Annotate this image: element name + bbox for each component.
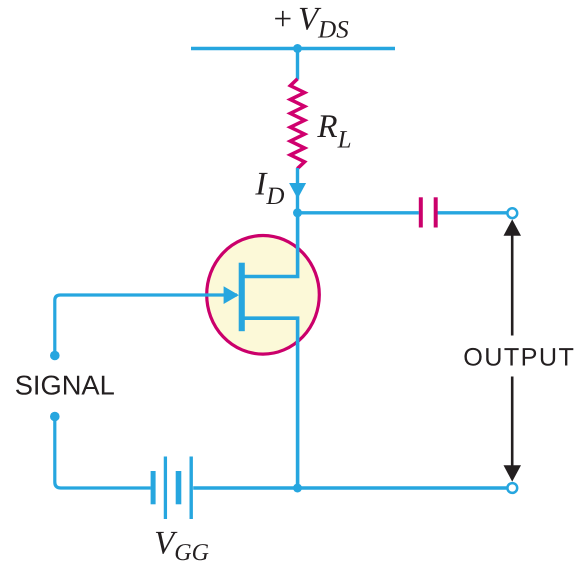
svg-text:VDS: VDS bbox=[298, 1, 349, 43]
svg-text:VGG: VGG bbox=[154, 526, 209, 564]
svg-text:RL: RL bbox=[316, 109, 351, 154]
svg-text:+: + bbox=[274, 1, 293, 37]
svg-text:ID: ID bbox=[254, 166, 284, 210]
svg-text:SIGNAL: SIGNAL bbox=[15, 370, 115, 401]
svg-text:OUTPUT: OUTPUT bbox=[463, 344, 575, 372]
